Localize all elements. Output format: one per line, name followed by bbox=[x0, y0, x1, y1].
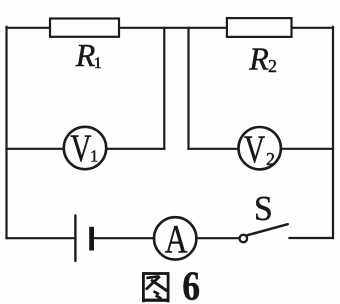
svg-text:A: A bbox=[165, 217, 188, 261]
svg-text:R: R bbox=[75, 37, 96, 73]
svg-text:2: 2 bbox=[268, 56, 277, 76]
svg-text:2: 2 bbox=[266, 149, 275, 169]
svg-text:V: V bbox=[244, 127, 265, 171]
svg-text:6: 6 bbox=[182, 264, 200, 304]
svg-text:R: R bbox=[248, 40, 269, 76]
svg-text:S: S bbox=[254, 190, 273, 229]
svg-text:1: 1 bbox=[90, 147, 98, 166]
svg-text:V: V bbox=[70, 126, 91, 170]
svg-text:1: 1 bbox=[94, 55, 102, 72]
